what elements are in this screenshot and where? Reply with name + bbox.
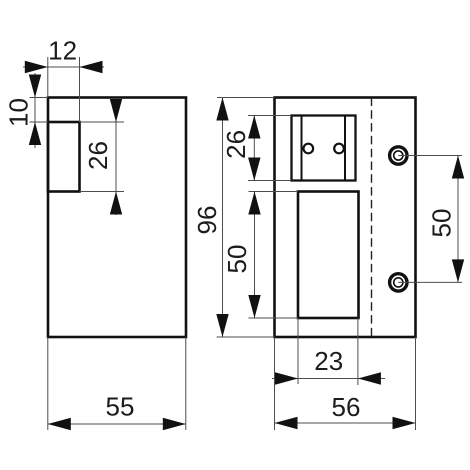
dim 10: bottom arrow: [29, 122, 41, 145]
dim 50 left: top arrow: [248, 192, 260, 215]
svg-text:50: 50: [427, 209, 457, 238]
dim 23: dimension line: [272, 378, 385, 380]
left view: notch rectangle: [48, 122, 80, 192]
dim 56: left arrow: [275, 417, 298, 429]
right view: strike box inner right wall: [344, 116, 346, 181]
dim 26 left view: extension line top: [80, 121, 125, 123]
dim 56: extension line right: [415, 337, 417, 430]
dim 26 left view: bottom arrow: [110, 192, 122, 215]
svg-text:26: 26: [221, 130, 251, 159]
dim 26 left view: extension line bottom: [80, 191, 125, 193]
dim 26 right view: dimension line: [253, 116, 255, 181]
dim 50 right: extension line top: [398, 155, 462, 157]
dim 26 right view: bottom arrow: [248, 158, 260, 181]
right view: strike box outer: [292, 116, 356, 181]
dim 23: extension line right: [357, 318, 359, 385]
right view: latch box: [298, 192, 359, 319]
dim 12: left arrow: [25, 61, 48, 73]
dim 10: top arrow: [29, 75, 41, 98]
dim 26 right view: extension line top: [248, 115, 292, 117]
svg-text:96: 96: [192, 206, 222, 235]
dim 12: right arrow: [80, 61, 103, 73]
dim 26 right view: top arrow: [248, 116, 260, 139]
dim 55: right arrow: [163, 418, 186, 430]
dim 26 left view: top arrow: [110, 99, 122, 122]
right view: main body outline: [275, 98, 416, 338]
dim 12: extension line left: [47, 57, 49, 98]
svg-text:10: 10: [3, 98, 33, 127]
right view: mounting hole top inner ring: [394, 151, 403, 160]
dim 96: top arrow: [216, 98, 228, 121]
svg-text:12: 12: [48, 36, 77, 66]
svg-text:26: 26: [83, 141, 113, 170]
dim 50 left: bottom arrow: [248, 295, 260, 318]
dim 26 left view: dimension line: [115, 99, 117, 215]
dim 10: extension line top: [30, 97, 49, 99]
left view: main body outline: [48, 98, 186, 338]
svg-text:23: 23: [314, 346, 343, 376]
right view: mounting hole top outer ring: [390, 147, 407, 164]
dim 55: dimension line: [48, 423, 186, 425]
dim 23: extension line left: [297, 318, 299, 384]
dim 50 left: extension line bottom: [249, 317, 299, 319]
dim 12: dimension line: [23, 66, 104, 68]
right view: small screw hole right: [334, 144, 344, 154]
dim 96: dimension line: [222, 98, 224, 338]
dim 50 right: bottom arrow: [452, 259, 464, 282]
dim 50 right: dimension line: [457, 156, 459, 283]
dim 10: extension line bottom: [30, 121, 49, 123]
dim 10: dimension line: [34, 73, 36, 148]
dim 96: bottom arrow: [216, 314, 228, 337]
right view: strike box inner left wall: [301, 116, 303, 181]
dim 50 right: top arrow: [452, 156, 464, 179]
dim 56: right arrow: [393, 417, 416, 429]
dim 23: left arrow: [275, 372, 298, 384]
dim 50 left: extension line top: [249, 191, 299, 193]
dim 50 right: extension line bottom: [398, 281, 462, 283]
right view: small screw hole left: [304, 144, 314, 154]
dim 55: left arrow: [48, 418, 71, 430]
dim 50 left: dimension line: [254, 192, 256, 319]
right view: dashed fold line: [371, 98, 373, 338]
dim 55: extension line right: [185, 337, 187, 430]
svg-text:56: 56: [332, 392, 361, 422]
dim 56: extension line left: [274, 337, 276, 430]
right view: mounting hole bottom inner ring: [394, 278, 403, 287]
svg-text:55: 55: [106, 392, 135, 422]
dim 12: extension line right: [79, 57, 81, 122]
dim 55: extension line left: [47, 337, 49, 430]
dim 96: extension line top: [217, 97, 275, 99]
svg-text:50: 50: [222, 245, 252, 274]
dim 23: right arrow: [358, 372, 381, 384]
dim 26 right view: extension line bottom: [248, 180, 292, 182]
dim 56: dimension line: [275, 422, 416, 424]
right view: mounting hole bottom outer ring: [390, 274, 407, 291]
dim 96: extension line bottom: [217, 336, 275, 338]
